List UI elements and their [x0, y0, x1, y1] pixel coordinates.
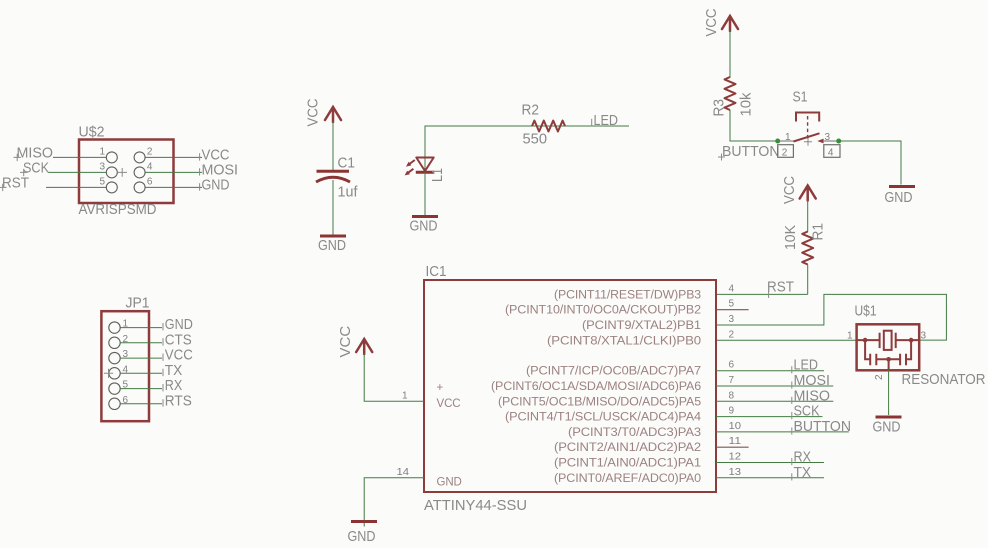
wire VCC to C1 [332, 121, 334, 170]
svg-text:(PCINT3/T0/ADC3)PA3: (PCINT3/T0/ADC3)PA3 [568, 427, 701, 439]
wire JP1 pin6 to RTS [120, 403, 162, 405]
wire VCC to R1 [807, 200, 809, 232]
svg-text:VCC: VCC [437, 398, 461, 410]
switch S1 movable contact [793, 133, 819, 141]
net label BUTTON (IC1) [792, 418, 851, 435]
net label VCC (U$2) [200, 146, 230, 163]
svg-text:RTS: RTS [165, 392, 192, 409]
wire SCK to U$2 pin3 [48, 171, 106, 173]
net label RX (IC1) [792, 449, 811, 466]
svg-text:12: 12 [729, 452, 742, 463]
JP1 pin 5 [109, 380, 129, 395]
svg-text:14: 14 [397, 467, 410, 478]
svg-text:8: 8 [729, 390, 735, 401]
power symbol VCC (above R3) [722, 16, 738, 31]
wire L1 to GND [424, 172, 426, 215]
resonator junction dot pin3 [909, 338, 914, 343]
wire RX (IC1 pin12) [716, 462, 824, 464]
svg-text:5: 5 [100, 176, 106, 187]
svg-text:(PCINT11/RESET/DW)PB3: (PCINT11/RESET/DW)PB3 [554, 289, 701, 301]
ground symbol (right of S1) [885, 187, 916, 207]
svg-text:1uf: 1uf [338, 184, 359, 201]
wire resonator pin2 to GND [888, 370, 890, 415]
net label RX (JP1) [163, 377, 182, 394]
net label GND (JP1) [163, 316, 193, 333]
net label GND (U$2) [200, 176, 230, 193]
resonator crystal element [880, 331, 896, 350]
svg-text:S1: S1 [793, 89, 808, 106]
svg-text:1: 1 [402, 390, 408, 401]
net label SCK (IC1) [792, 403, 820, 420]
wire TX (IC1 pin13) [716, 477, 824, 479]
connector JP1 outline [101, 311, 149, 421]
svg-text:(PCINT2/AIN1/ADC2)PA2: (PCINT2/AIN1/ADC2)PA2 [554, 442, 701, 454]
svg-text:(PCINT7/ICP/OC0B/ADC7)PA7: (PCINT7/ICP/OC0B/ADC7)PA7 [526, 366, 701, 378]
wire XTAL2 (IC1 pin3 to resonator pin3) [716, 294, 946, 340]
JP1 pin 6 [109, 395, 129, 410]
resistor R1 [802, 232, 813, 265]
resonator internal capacitors [865, 340, 911, 365]
svg-text:4: 4 [828, 148, 834, 159]
junction at S1 pin 1 [775, 139, 780, 144]
IC1 ATTINY44 outline [424, 280, 716, 492]
net label TX (IC1) [792, 464, 811, 481]
wire JP1 pin5 to RX [120, 388, 162, 390]
wire MOSI (IC1 pin7) [716, 385, 833, 387]
svg-text:10K: 10K [782, 225, 799, 250]
switch S1 pin 2 box [778, 145, 794, 159]
svg-text:RST: RST [767, 278, 794, 295]
svg-text:9: 9 [729, 406, 735, 417]
ground symbol (below C1) [318, 236, 346, 254]
svg-text:GND: GND [437, 477, 462, 489]
svg-text:5: 5 [729, 299, 735, 310]
switch S1 pin 1 lead [778, 140, 794, 142]
svg-text:GND: GND [873, 419, 901, 436]
power symbol VCC (above R1) [800, 186, 816, 201]
net label MISO [14, 144, 54, 161]
svg-text:(PCINT9/XTAL2)PB1: (PCINT9/XTAL2)PB1 [582, 320, 701, 332]
svg-text:1: 1 [785, 132, 791, 143]
svg-text:U$1: U$1 [855, 303, 877, 320]
wire MISO (IC1 pin8) [716, 400, 833, 402]
svg-text:10: 10 [729, 421, 742, 432]
svg-text:(PCINT0/AREF/ADC0)PA0: (PCINT0/AREF/ADC0)PA0 [554, 473, 701, 485]
U$2 pin 4 [134, 161, 153, 178]
net label MISO (IC1) [792, 387, 830, 404]
power symbol VCC (above C1) [325, 107, 341, 122]
net label RST (left) [0, 174, 29, 191]
wire VCC to IC1 pin1 [364, 353, 424, 401]
wire S1 pin3 to GND [839, 141, 901, 185]
svg-text:ATTINY44-SSU: ATTINY44-SSU [424, 497, 527, 514]
svg-text:6: 6 [147, 176, 153, 187]
svg-text:R3: R3 [711, 99, 728, 117]
svg-text:550: 550 [523, 131, 548, 148]
svg-text:(PCINT4/T1/SCL/USCK/ADC4)PA4: (PCINT4/T1/SCL/USCK/ADC4)PA4 [505, 412, 702, 424]
svg-text:4: 4 [147, 161, 153, 172]
IC1 pin 11 stub [716, 446, 749, 448]
svg-text:(PCINT10/INT0/OC0A/CKOUT)PB2: (PCINT10/INT0/OC0A/CKOUT)PB2 [505, 305, 701, 317]
U$2 pin 1 [100, 146, 118, 163]
U$2 pin 2 [134, 146, 153, 163]
IC1 pin 5 stub [716, 309, 749, 311]
wire U$2 pin4 to MOSI [145, 171, 202, 173]
switch S1 contact arrowhead [817, 139, 823, 144]
wire RST to U$2 pin5 [46, 186, 106, 188]
net label LED (at R2) [592, 112, 618, 129]
svg-text:4: 4 [729, 283, 735, 294]
net label VCC (JP1) [163, 347, 193, 364]
svg-text:LED: LED [594, 112, 619, 129]
svg-text:2: 2 [147, 146, 153, 157]
svg-text:10k: 10k [738, 92, 755, 116]
wire VCC to R3 [729, 30, 731, 78]
svg-text:GND: GND [410, 218, 438, 235]
resonator junction dot pin1 [863, 338, 868, 343]
JP1 pin 3 [109, 349, 129, 364]
svg-text:GND: GND [885, 189, 913, 206]
junction at S1 pin 3 [836, 139, 841, 144]
svg-text:3: 3 [729, 314, 735, 325]
ground symbol (below resonator) [873, 417, 902, 436]
U$2 pin 6 [134, 176, 153, 193]
ground symbol (below IC1) [348, 522, 378, 546]
switch S1 actuator stem (dashed) [807, 116, 809, 142]
net label CTS [163, 331, 192, 348]
wire MISO to U$2 pin1 [53, 156, 106, 158]
svg-text:2: 2 [729, 329, 735, 340]
svg-text:(PCINT8/XTAL1/CLKI)PB0: (PCINT8/XTAL1/CLKI)PB0 [547, 335, 701, 347]
resistor R3 [725, 77, 736, 110]
wire R3 to S1 pin1 [730, 110, 778, 141]
switch S1 pin 3 lead [824, 140, 839, 142]
svg-text:1: 1 [100, 146, 106, 157]
origin cross S1 [804, 138, 812, 146]
connector U$2 outline [79, 140, 174, 204]
LED L1 [416, 158, 434, 173]
net label BUTTON (at S1) [718, 143, 780, 161]
svg-text:(PCINT5/OC1B/MISO/DO/ADC5)PA5: (PCINT5/OC1B/MISO/DO/ADC5)PA5 [498, 396, 701, 408]
resonator pin2 stem [888, 359, 890, 370]
wire R1 to RST net [807, 265, 809, 295]
svg-text:(PCINT1/AIN0/ADC1)PA1: (PCINT1/AIN0/ADC1)PA1 [554, 458, 701, 470]
wire C1 to GND [332, 180, 334, 235]
svg-text:VCC: VCC [305, 98, 322, 126]
svg-text:L1: L1 [429, 168, 446, 182]
U$2 pin 5 [100, 176, 118, 193]
wire IC1 pin14 to GND [364, 478, 424, 527]
wire JP1 pin2 to CTS [120, 342, 162, 344]
wire JP1 pin3 to VCC [120, 357, 162, 359]
svg-text:2: 2 [874, 374, 885, 380]
svg-text:3: 3 [921, 331, 927, 342]
net label RTS [163, 392, 192, 409]
svg-text:VCC: VCC [703, 8, 720, 36]
switch S1 actuator bracket [796, 113, 819, 122]
svg-text:(PCINT6/OC1A/SDA/MOSI/ADC6)PA6: (PCINT6/OC1A/SDA/MOSI/ADC6)PA6 [491, 381, 701, 393]
svg-text:VCC: VCC [337, 326, 354, 358]
wire XTAL1 (IC1 pin2 to resonator pin1) [716, 339, 857, 341]
svg-text:3: 3 [825, 132, 831, 143]
switch S1 pin 4 box [824, 145, 840, 159]
capacitor C1 [316, 171, 350, 182]
wire RST (IC1 pin4 to R1) [716, 293, 808, 295]
svg-text:C1: C1 [338, 155, 356, 172]
wire BUTTON (IC1 pin10) [716, 431, 849, 433]
svg-text:GND: GND [318, 237, 346, 254]
svg-text:VCC: VCC [781, 176, 798, 204]
svg-text:GND: GND [202, 176, 230, 193]
net label LED (IC1) [792, 357, 818, 374]
resonator junction dot pin2 [886, 357, 891, 362]
LED L1 emission arrows [405, 160, 415, 175]
origin cross JP1 [104, 369, 113, 378]
resonator internal leads [857, 339, 920, 341]
net label SCK [20, 159, 49, 176]
wire JP1 pin1 to GND [120, 327, 162, 329]
JP1 pin 1 [109, 319, 129, 334]
svg-text:AVRISPSMD: AVRISPSMD [79, 201, 157, 218]
wire U$2 pin2 to VCC [145, 156, 202, 158]
svg-text:RESONATOR: RESONATOR [902, 371, 986, 388]
svg-text:RST: RST [2, 174, 29, 191]
svg-text:13: 13 [729, 467, 742, 478]
wire JP1 pin4 to TX [120, 372, 162, 374]
svg-text:2: 2 [782, 148, 788, 159]
resistor R2 [532, 121, 565, 132]
wire SCK (IC1 pin9) [716, 416, 823, 418]
net label MOSI (U$2) [200, 161, 238, 178]
svg-text:3: 3 [100, 161, 106, 172]
net label TX (JP1) [163, 362, 182, 379]
svg-text:IC1: IC1 [426, 263, 447, 280]
svg-text:11: 11 [729, 436, 742, 447]
net label MOSI (IC1) [792, 372, 830, 389]
svg-text:1: 1 [847, 331, 853, 342]
U$2 pin 3 [100, 161, 118, 178]
svg-text:BUTTON: BUTTON [794, 418, 852, 435]
svg-text:TX: TX [794, 464, 812, 481]
wire LED net (R2 to L1) [425, 126, 629, 171]
origin cross U$2 [118, 168, 128, 177]
svg-text:R2: R2 [522, 102, 540, 119]
JP1 pin 2 [109, 334, 129, 349]
ground symbol (below L1) [410, 217, 439, 235]
svg-text:R1: R1 [810, 223, 827, 241]
wire U$2 pin6 to GND [145, 186, 202, 188]
svg-text:7: 7 [729, 375, 735, 386]
svg-text:6: 6 [729, 360, 735, 371]
svg-text:BUTTON: BUTTON [722, 143, 780, 160]
resonator U$1 outline [857, 324, 920, 370]
svg-text:GND: GND [348, 528, 376, 545]
power symbol VCC (left of IC1) [356, 339, 372, 354]
wire LED (IC1 pin6) [716, 370, 824, 372]
svg-text:JP1: JP1 [126, 295, 150, 312]
JP1 pin 4 [109, 364, 129, 379]
svg-text:+: + [437, 382, 444, 394]
svg-text:U$2: U$2 [79, 124, 105, 141]
net label RST [767, 278, 794, 298]
